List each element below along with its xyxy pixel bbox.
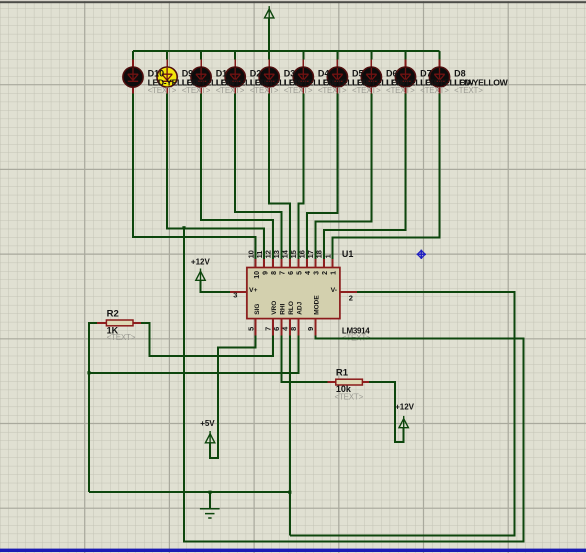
wire: R2 left to ground [89,323,97,492]
wire: ground rail [89,491,290,493]
resistor R2 [133,322,141,324]
svg-text:+5V: +5V [200,419,215,428]
wire: rail to D9 [166,51,168,60]
svg-text:<TEXT>: <TEXT> [386,86,415,95]
wire: SIG pin 5 to +5V [210,336,256,458]
wire: rail to D4 [302,51,304,60]
LED D5 [327,67,347,87]
svg-text:7: 7 [279,271,286,275]
wire: D9 cathode to chip pin 11 [167,93,264,260]
wire: ADJ pin 8 to R2-left net [89,336,298,373]
pin 2 stub [340,291,357,293]
LED D6 [361,67,381,87]
svg-text:MODE: MODE [314,295,321,315]
LED D4 [293,67,313,87]
svg-text:6: 6 [288,271,295,275]
svg-text:RHI: RHI [279,303,286,314]
sheet origin marker [417,250,426,259]
LED D8 leads [439,60,441,94]
LED D7 [395,67,415,87]
pin 14 stub [289,259,291,267]
svg-text:<TEXT>: <TEXT> [182,86,211,95]
junction ADJ/R2 [87,371,90,374]
wire: rail to D6 [370,51,372,60]
svg-text:2: 2 [349,293,353,302]
pin 8 stub [297,319,299,336]
LED D6 leads [370,60,372,94]
power terminal +5V [205,434,214,443]
pin 5 stub [255,319,257,336]
svg-text:ADJ: ADJ [296,301,303,314]
wire: rail to D8 [439,51,441,60]
svg-text:+12V: +12V [395,402,415,411]
wire: RLO pin 4 down [289,336,291,536]
R1 right lead [362,381,369,383]
pin 12 stub [272,259,274,267]
LED D5 leads [336,60,338,94]
svg-text:1: 1 [331,271,338,275]
svg-text:V+: V+ [249,287,258,294]
wire: D10 cathode to chip pin 10 [133,93,256,260]
resistor R1 [336,379,363,385]
svg-text:<TEXT>: <TEXT> [352,86,381,95]
LED D10 leads [132,60,134,94]
pin 13 stub [280,259,282,267]
LED D4 leads [302,60,304,94]
window top border [0,0,586,1]
svg-text:3: 3 [314,271,321,275]
pin 10 stub [255,259,257,267]
svg-text:4: 4 [305,271,312,275]
LED D1 leads [200,60,202,94]
wire: D7 cathode to chip pin 18 [324,93,406,260]
svg-text:<TEXT>: <TEXT> [318,86,347,95]
LED D3 [259,67,279,87]
IC U1 LM3914 body [247,268,340,319]
wire: +V anode rail [133,50,440,52]
wire: V- to bottom rail [290,292,515,536]
wire: D1 cathode to chip pin 12 [201,93,273,260]
ground symbol [200,509,220,518]
wire: D6 cathode to chip pin 17 [315,93,371,260]
svg-text:<TEXT>: <TEXT> [148,86,177,95]
svg-text:<TEXT>: <TEXT> [107,333,136,342]
svg-text:R2: R2 [107,309,119,320]
svg-text:8: 8 [289,327,298,331]
svg-text:5: 5 [296,271,303,275]
LED D10 [123,67,143,87]
svg-text:8: 8 [271,271,278,275]
power terminal +12V left [196,271,205,280]
wire: rail to D5 [336,51,338,60]
LED D7 leads [405,60,407,94]
wire: top power stem [268,18,270,51]
wire: D5 cathode to chip pin 16 [307,93,338,260]
pin 7 stub [272,319,274,336]
pin 18 stub [323,259,325,267]
wire: MODE pin 9 to D9 cathode [184,227,524,541]
wire: rail to D1 [200,51,202,60]
pin 3 stub [230,291,247,293]
wire: D3 cathode to chip pin 14 [269,93,290,260]
LED D9 leads [166,60,168,94]
pin 17 stub [314,259,316,267]
pin 1 stub [332,259,334,267]
wire: rail to D7 [405,51,407,60]
junction RLO/ground [288,491,291,494]
window bottom blue edge [0,549,586,552]
svg-text:V-: V- [331,287,337,294]
wire: D4 cathode to chip pin 15 [298,93,303,260]
pin 16 stub [306,259,308,267]
wire: rail to D2 [234,51,236,60]
wire: D2 cathode to chip pin 13 [235,93,281,260]
svg-text:<TEXT>: <TEXT> [216,86,245,95]
wire: rail to D3 [268,51,270,60]
LED D2 leads [234,60,236,94]
svg-text:5: 5 [247,327,256,331]
wire: ground stub [209,492,211,508]
svg-text:10: 10 [254,271,261,279]
power terminal +V top [265,9,274,18]
pin 15 stub [297,259,299,267]
svg-text:<TEXT>: <TEXT> [454,86,483,95]
wire: R1 right to +12V [369,382,404,442]
LED D2 [225,67,245,87]
wire: R2 right to VRO pin 7 [141,323,273,356]
svg-text:9: 9 [306,327,315,331]
LED D3 leads [268,60,270,94]
junction on D9 net [182,226,185,229]
pin 11 stub [263,259,265,267]
svg-text:<TEXT>: <TEXT> [250,86,279,95]
wire: +12V to V+ pin 3 [201,281,230,292]
pin 9 stub [314,319,316,336]
junction ground/rail [208,491,211,494]
svg-text:<TEXT>: <TEXT> [284,86,313,95]
svg-text:2: 2 [322,271,329,275]
wire: RHI pin 6 to R1 [281,336,327,383]
svg-text:1: 1 [323,254,332,258]
LED D9 (lit) [157,67,177,87]
svg-text:<TEXT>: <TEXT> [335,393,364,402]
wire: rail to D10 [132,51,134,60]
svg-text:9: 9 [262,271,269,275]
wire: D8 cathode to chip pin 1 [333,93,440,260]
svg-text:VRO: VRO [271,301,278,315]
svg-text:RLO: RLO [288,301,295,315]
svg-text:R1: R1 [336,368,349,379]
svg-text:<TEXT>: <TEXT> [420,86,449,95]
svg-text:3: 3 [233,291,237,300]
LED D8 [429,67,449,87]
svg-text:+12V: +12V [191,258,211,267]
pin 6 stub [280,319,282,336]
power terminal +12V right [399,419,408,428]
LED D1 [191,67,211,87]
R1 left lead [328,381,336,383]
svg-text:U1: U1 [342,249,354,259]
pin 4 stub [289,319,291,336]
svg-text:SIG: SIG [254,304,261,315]
